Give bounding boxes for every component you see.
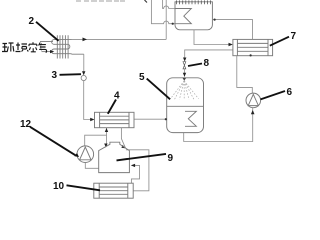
vessel 1 body bbox=[175, 2, 212, 30]
tank 5 body bbox=[167, 78, 204, 133]
heat exchanger 7 bbox=[233, 39, 273, 55]
leader 10 bbox=[67, 185, 101, 190]
arrow down above valve 8 bbox=[183, 58, 186, 62]
arrow tip of leader 12 bbox=[75, 153, 80, 157]
wire: sight glass 3 down and into HX4 left port bbox=[84, 81, 93, 120]
arrow down into tank 9 left shoulder bbox=[104, 144, 107, 148]
heat exchanger 10 bbox=[94, 183, 133, 198]
arrow into right shoulder bbox=[121, 145, 125, 149]
arrow on H2 wire bbox=[83, 38, 88, 42]
junction dot at tank 5 left port bbox=[165, 118, 167, 120]
char 空 bbox=[29, 42, 37, 52]
wire: HX7 bottom to pump 6 top bbox=[237, 56, 253, 93]
leader 6 bbox=[261, 91, 286, 99]
leader 2 bbox=[36, 22, 59, 41]
spray rays (dashed) bbox=[170, 81, 198, 100]
wire: vessel 1 bottom outlet to HX7 left upper port bbox=[194, 30, 231, 45]
svg-text:9: 9 bbox=[168, 153, 174, 164]
arrow down into sight glass bbox=[82, 71, 85, 75]
ambient air inlet arrows bbox=[40, 41, 53, 43]
tank 5 divider bbox=[167, 105, 204, 107]
svg-text:8: 8 bbox=[204, 58, 210, 69]
spray nozzle in tank 5 bbox=[182, 78, 186, 81]
wire: HX4 second bottom port to tank 9 right shoulder bbox=[121, 128, 125, 149]
wire: HX7 left lower port to expansion valve 8 bbox=[185, 50, 233, 59]
arrow up into HX4 bottom bbox=[105, 128, 108, 132]
leader 5 bbox=[147, 79, 170, 100]
arrow into tank 5 top bbox=[183, 73, 186, 77]
wire: riser V1 from top edge, right into vessel 1 left port with hop over V2 bbox=[151, 0, 175, 24]
wire: valve 8 to tank 5 top bbox=[184, 69, 186, 77]
cropped gray caption text fragments at top edge bbox=[76, 0, 125, 2]
svg-text:3: 3 bbox=[52, 70, 58, 81]
arrow into tank 9 right wall bbox=[131, 164, 135, 167]
svg-text:7: 7 bbox=[291, 31, 297, 42]
svg-text:5: 5 bbox=[139, 72, 145, 83]
char 气 bbox=[39, 43, 47, 53]
wire: coil 2 outlet down to sight glass 3 bbox=[83, 54, 85, 73]
tank 5 internal sigma coil symbol bbox=[185, 111, 196, 126]
wire: tank 5 bottom outlet to pump 6 bottom bbox=[184, 108, 253, 142]
arrow into HX7 left bbox=[229, 43, 233, 46]
leader 9 bbox=[117, 154, 167, 161]
heat exchanger 4 bbox=[95, 112, 135, 127]
junction dot at vessel right port bbox=[214, 19, 216, 21]
compressor 12 bbox=[77, 146, 94, 163]
ambient air label (pseudo CJK strokes for 环境空气) bbox=[2, 42, 47, 53]
svg-text:6: 6 bbox=[287, 87, 293, 98]
wire: riser V2 from top edge down to H2 bbox=[165, 0, 167, 39]
leader 8 bbox=[188, 64, 202, 67]
wire: pipe H1 from top edge at x=162.6 into vessel 1 upper-left port with hop over V2 bbox=[163, 0, 175, 9]
sight glass / component 3 (small circle) bbox=[81, 75, 86, 80]
svg-text:2: 2 bbox=[29, 16, 35, 27]
leader 4 bbox=[108, 100, 116, 114]
vessel 1 internal pennant heat-exchange symbol bbox=[175, 9, 191, 24]
coil 2 fins bbox=[57, 35, 68, 58]
wire: compressor 12 bottom to tank 9 left wall bbox=[85, 163, 98, 169]
wire: shoulder junction right and down to HX10 right cap mid bbox=[126, 150, 149, 191]
char 境 bbox=[16, 43, 29, 52]
wire: HX4 right port to tank 5 left wall bbox=[134, 118, 167, 120]
leader 12 bbox=[30, 127, 76, 156]
coil 2 serpentine tube bbox=[52, 40, 84, 55]
wire: long line from coil 2 to vertical riser (H2) bbox=[72, 38, 167, 40]
wire: HX4 bottom port to compressor 12 and tank 9 left shoulder bbox=[106, 128, 108, 147]
wire: vessel 1 right port to HX7 top bbox=[212, 20, 252, 40]
leader 7 bbox=[270, 37, 289, 46]
char 环 bbox=[2, 43, 14, 52]
junction dot at vessel 1 lower-left port bbox=[172, 23, 174, 25]
wire: tank 9 right wall port from HX10 riser bbox=[131, 165, 139, 183]
arrow up into pump bottom bbox=[251, 110, 255, 114]
leader 3 bbox=[60, 73, 82, 76]
svg-text:12: 12 bbox=[20, 119, 32, 130]
dark speck of cropped char bbox=[145, 0, 148, 3]
junction dot under HX7 bbox=[250, 54, 252, 56]
valve 8 (bowtie) bbox=[183, 62, 186, 69]
vessel 1 top hatching bbox=[177, 0, 211, 4]
svg-text:10: 10 bbox=[53, 181, 65, 192]
pump 6 bbox=[246, 93, 261, 108]
arrow into HX4 left bbox=[90, 118, 94, 121]
tank 9 body bbox=[99, 142, 130, 172]
